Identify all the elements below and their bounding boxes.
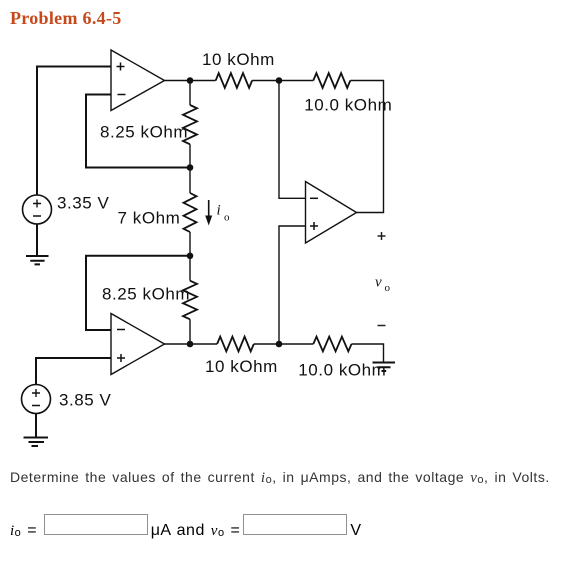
wire: R2 right to top-right corner down to U3 output — [350, 81, 383, 213]
wire: R1 right to node E and on to R2 left — [252, 80, 313, 82]
input box vo — [243, 514, 347, 535]
wire: R5 bottom to node D — [189, 319, 191, 344]
wire: V1 plus terminal to op-amp U1 noninverting input — [37, 67, 111, 196]
svg-text:v: v — [375, 275, 382, 291]
current io arrow — [205, 200, 212, 226]
ground G2 — [24, 438, 49, 447]
svg-text:3.85 V: 3.85 V — [59, 391, 112, 410]
wire: U3 noninverting input down to node F — [279, 226, 306, 344]
resistor R7 10.0 kOhm bottom right — [313, 337, 351, 352]
voltage source V2 3.85 V — [22, 385, 51, 414]
label vo minus — [378, 325, 386, 327]
wire: V1 minus terminal to ground G1 — [36, 224, 38, 256]
wire: U1 inverting input feedback from node B — [86, 95, 190, 168]
ground G3 — [373, 363, 396, 372]
svg-text:8.25 kOhm: 8.25 kOhm — [100, 123, 188, 142]
wire: R7 right to bottom-right corner down to ground G3 — [352, 344, 384, 363]
wire: V2 minus terminal to ground G2 — [35, 414, 37, 438]
resistor R5 8.25 kOhm lower vertical — [183, 281, 197, 320]
wire: node E down to U3 inverting input — [279, 81, 306, 199]
wire: U2 output to node D — [165, 343, 218, 345]
ground G1 — [26, 256, 49, 264]
voltage source V1 3.35 V — [23, 195, 52, 224]
wire: R3 bottom to node B to R4 top — [189, 144, 191, 193]
svg-text:3.35 V: 3.35 V — [57, 194, 110, 213]
svg-text:7 kOhm: 7 kOhm — [118, 209, 181, 228]
svg-text:10.0 kOhm: 10.0 kOhm — [304, 96, 392, 115]
svg-text:i: i — [217, 203, 221, 219]
input box io — [44, 514, 148, 535]
node E junction dot — [276, 77, 283, 84]
resistor R3 8.25 kOhm upper vertical — [183, 105, 197, 144]
wire: U1 output to node A — [165, 80, 216, 82]
resistor R1 10 kOhm top — [216, 73, 252, 88]
wire: node A to resistor R3 top — [189, 81, 191, 106]
wire: U2 inverting input feedback from node C — [86, 256, 190, 330]
node C junction dot — [187, 253, 194, 260]
answer row — [10, 522, 37, 540]
node F junction dot — [276, 341, 283, 348]
op-amp U3 — [306, 182, 357, 244]
wire: V2 plus terminal to op-amp U2 noninverting input — [36, 358, 111, 385]
resistor R6 10 kOhm bottom — [217, 337, 254, 352]
resistor R4 7 kOhm middle vertical — [184, 193, 197, 232]
prompt text — [10, 469, 550, 487]
wire: R6 right to node F and on to R7 left — [254, 343, 313, 345]
label vo plus — [378, 232, 386, 240]
svg-text:o: o — [385, 282, 391, 294]
svg-text:10.0 kOhm: 10.0 kOhm — [298, 361, 386, 380]
wire: R4 bottom to node C to R5 top — [189, 232, 191, 281]
svg-text:o: o — [224, 212, 230, 224]
resistor R2 10.0 kOhm top right — [313, 73, 350, 88]
title — [10, 8, 122, 29]
svg-text:10 kOhm: 10 kOhm — [205, 357, 278, 376]
node D junction dot — [187, 341, 194, 348]
op-amp U2 — [111, 314, 165, 375]
svg-text:10 kOhm: 10 kOhm — [202, 50, 275, 69]
node A junction dot — [187, 77, 194, 84]
op-amp U1 — [111, 50, 165, 111]
node B junction dot — [187, 164, 194, 171]
svg-text:8.25 kOhm: 8.25 kOhm — [102, 285, 190, 304]
